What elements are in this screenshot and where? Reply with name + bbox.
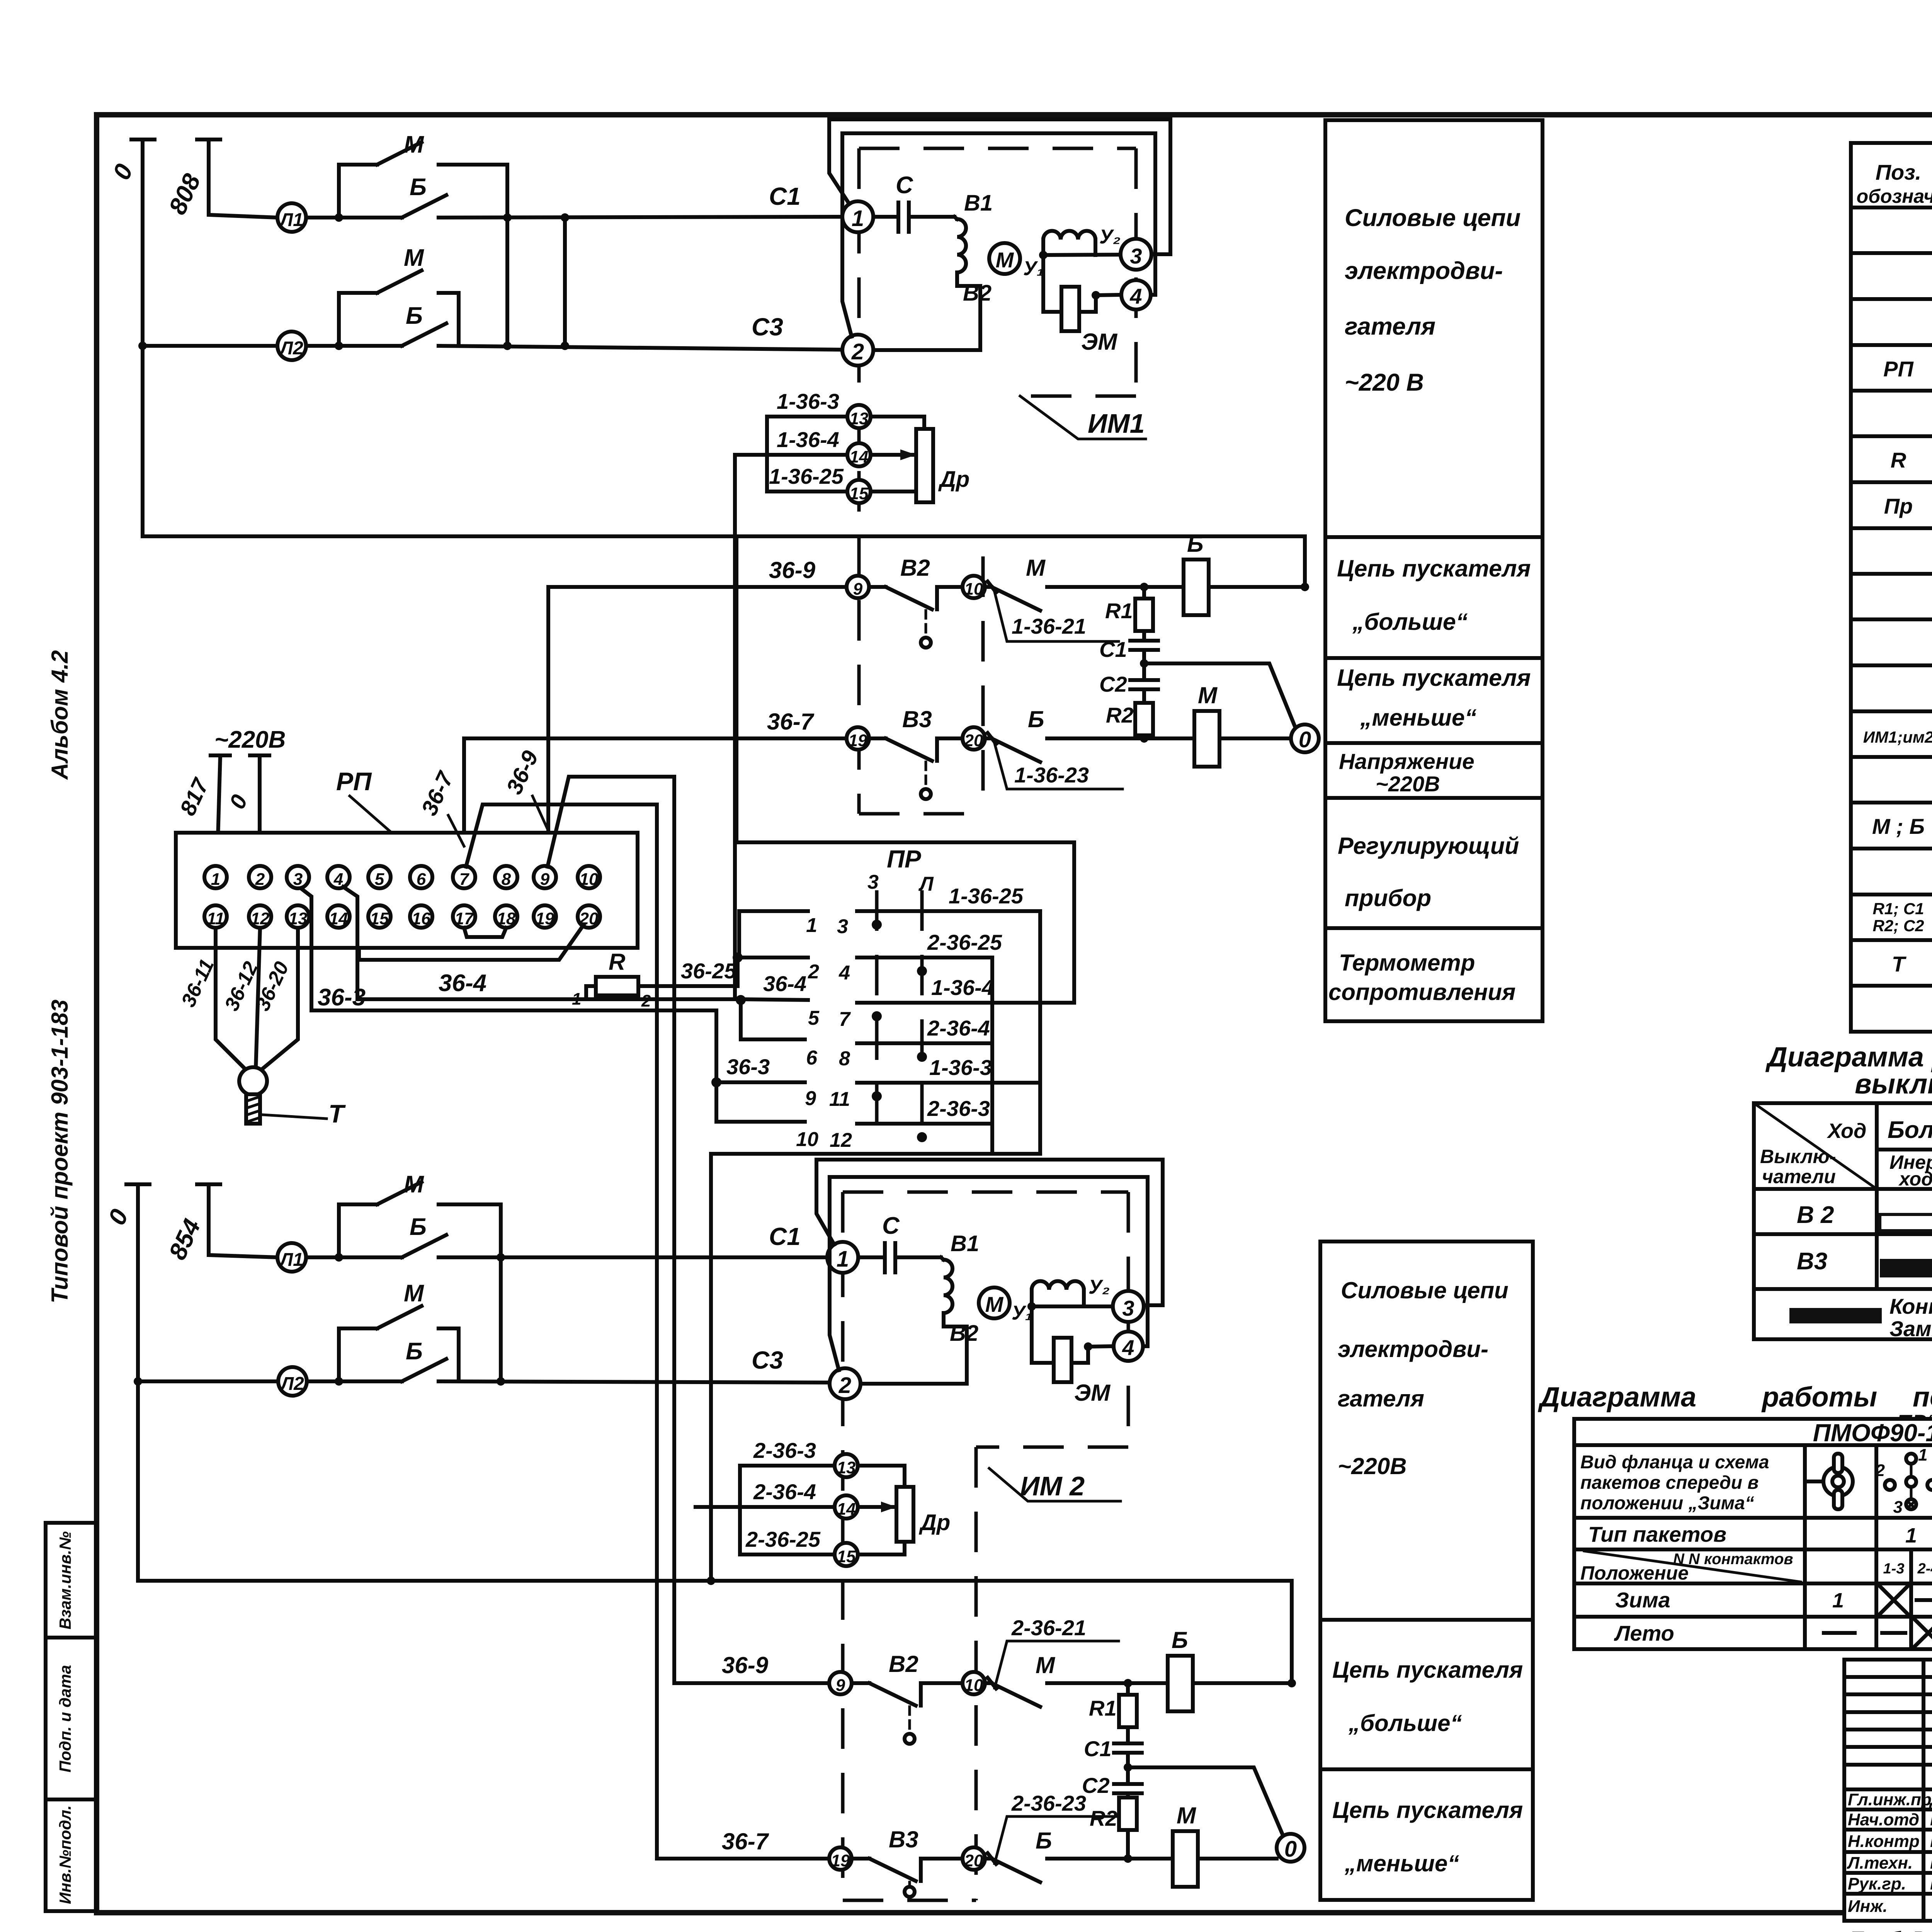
svg-text:Л1: Л1 — [279, 1250, 303, 1270]
svg-text:М: М — [1036, 1652, 1056, 1678]
svg-text:0: 0 — [1284, 1837, 1297, 1862]
svg-text:36-9: 36-9 — [722, 1652, 769, 1678]
svg-text:Кушель: Кушель — [1930, 1831, 1932, 1851]
ladder stub 10 — [716, 1082, 805, 1122]
flange symbol — [1807, 1480, 1822, 1483]
svg-text:М: М — [404, 245, 424, 271]
svg-text:R1: R1 — [1089, 1696, 1117, 1720]
svg-text:9: 9 — [836, 1676, 845, 1695]
mark cell 2 — [1917, 1598, 1932, 1602]
contact B row1 — [402, 195, 446, 218]
svg-text:Б: Б — [1187, 531, 1203, 557]
svg-text:5: 5 — [375, 870, 384, 889]
svg-text:Гл.инж.пр: Гл.инж.пр — [1848, 1790, 1932, 1809]
svg-text:3: 3 — [867, 871, 879, 893]
title block name rows — [1844, 1810, 1932, 1894]
contact B2 — [869, 587, 963, 609]
svg-text:12: 12 — [830, 1129, 852, 1151]
svg-text:Цепь пускателя: Цепь пускателя — [1332, 1657, 1523, 1683]
svg-text:Проб. Руттасе: Проб. Руттасе — [1849, 1928, 1932, 1932]
svg-text:С: С — [882, 1213, 900, 1239]
resistor R1 lower — [1126, 1683, 1130, 1695]
node L1 lower — [277, 1243, 306, 1272]
terminal 4 — [1121, 280, 1151, 310]
svg-text:Инж.: Инж. — [1848, 1897, 1888, 1916]
wire L1 row lower — [306, 1255, 827, 1259]
wire 13 to DR — [871, 417, 924, 502]
wire pin20 tap — [359, 925, 583, 960]
svg-text:Мейман: Мейман — [1930, 1809, 1932, 1829]
contact B row2 lower — [402, 1359, 446, 1381]
dashed box IM1 — [859, 148, 1136, 814]
contact M coil circuit lower — [985, 1678, 1168, 1707]
wire 0 horizontal — [143, 536, 1305, 587]
svg-text:1-3: 1-3 — [1883, 1561, 1905, 1577]
svg-text:прибор: прибор — [1345, 885, 1431, 911]
svg-text:Силовые цепи: Силовые цепи — [1345, 204, 1521, 231]
svg-text:~220В: ~220В — [214, 726, 286, 753]
leader IM1 — [1020, 396, 1146, 439]
node 13 — [847, 405, 871, 428]
svg-text:В3: В3 — [1797, 1248, 1827, 1275]
svg-text:В2: В2 — [950, 1321, 978, 1346]
wire M coil to 0 — [1219, 736, 1291, 740]
svg-text:1-36-3: 1-36-3 — [929, 1055, 992, 1080]
svg-text:12: 12 — [251, 909, 270, 928]
svg-text:14: 14 — [850, 447, 869, 466]
wire 13/15 to DR lower — [858, 1466, 905, 1554]
svg-text:36-9: 36-9 — [769, 557, 816, 583]
svg-text:1: 1 — [1905, 1524, 1917, 1547]
svg-text:36-3: 36-3 — [726, 1054, 770, 1079]
svg-text:9: 9 — [540, 870, 550, 889]
svg-text:„больше“: „больше“ — [1352, 609, 1468, 635]
svg-text:6: 6 — [417, 870, 426, 889]
PR bar 2-36-3 — [857, 1122, 992, 1126]
contact B row2 — [402, 323, 446, 346]
node L2 lower — [278, 1367, 307, 1396]
wire 36-7 — [464, 738, 847, 866]
svg-text:М: М — [996, 248, 1014, 272]
terminal 9 — [847, 576, 869, 598]
contact B2 lower — [852, 1683, 963, 1706]
svg-text:4: 4 — [1129, 284, 1142, 308]
svg-text:2-36-4: 2-36-4 — [927, 1016, 990, 1040]
svg-text:R2: R2 — [1106, 703, 1134, 727]
svg-text:1: 1 — [572, 990, 581, 1009]
label 2-36-23 — [995, 1816, 1119, 1864]
winding U2 lower — [1032, 1281, 1084, 1307]
svg-text:19: 19 — [831, 1851, 850, 1870]
mark cell 1 — [1879, 1585, 1909, 1615]
wire 220V to PR — [736, 536, 1074, 1003]
wire inner loop lower — [830, 1177, 1148, 1370]
svg-text:работы: работы — [1761, 1382, 1877, 1413]
ladder stub 9 — [716, 1080, 805, 1084]
svg-text:Диаграмма: Диаграмма — [1537, 1382, 1696, 1413]
svg-text:С1: С1 — [769, 182, 801, 210]
svg-text:Контакт: Контакт — [1889, 1294, 1932, 1318]
capacitor C — [873, 202, 954, 232]
svg-text:Крауле: Крауле — [1930, 1873, 1932, 1893]
svg-text:Замкнут: Замкнут — [1889, 1316, 1932, 1341]
svg-text:М: М — [1198, 682, 1218, 708]
svg-text:4: 4 — [838, 962, 850, 984]
svg-text:18: 18 — [497, 909, 516, 928]
svg-text:Конькова: Конькова — [1930, 1852, 1932, 1872]
terminal 20 — [963, 727, 985, 750]
svg-text:R2; С2: R2; С2 — [1872, 917, 1924, 935]
wire 36-3 drop — [714, 1010, 718, 1082]
wire 36-7 lower — [657, 1857, 829, 1861]
svg-text:10: 10 — [964, 1676, 983, 1695]
svg-text:36-4: 36-4 — [763, 971, 806, 996]
svg-text:У₂: У₂ — [1088, 1276, 1110, 1298]
junction dots row1 lower — [335, 1253, 343, 1262]
svg-text:С3: С3 — [752, 1346, 783, 1374]
svg-text:М: М — [404, 131, 424, 158]
open terminal below B2 — [925, 611, 927, 637]
svg-text:Б: Б — [406, 303, 423, 329]
svg-text:1-36-4: 1-36-4 — [931, 975, 994, 1000]
svg-text:1: 1 — [1832, 1589, 1844, 1612]
svg-text:С: С — [896, 172, 913, 199]
resistor R1 — [1142, 587, 1146, 599]
svg-text:Зима: Зима — [1615, 1588, 1670, 1612]
left stamp box 1 — [46, 1523, 96, 1638]
node 854 terminal — [197, 1184, 277, 1257]
parts table grid — [1851, 143, 1932, 1032]
svg-text:15: 15 — [850, 484, 869, 503]
svg-text:13: 13 — [837, 1458, 856, 1477]
svg-text:14: 14 — [837, 1500, 856, 1519]
node 15 lower — [835, 1543, 858, 1566]
svg-text:ПР: ПР — [887, 845, 921, 873]
wire node to 0 — [1144, 663, 1295, 727]
svg-text:Б: Б — [410, 174, 427, 201]
svg-text:15: 15 — [837, 1547, 856, 1566]
leader IM2 — [989, 1468, 1121, 1501]
svg-text:электродви-: электродви- — [1338, 1336, 1488, 1362]
svg-text:Н.контр: Н.контр — [1848, 1832, 1920, 1851]
wire vertical tie — [563, 218, 567, 346]
svg-text:2: 2 — [1875, 1461, 1885, 1480]
svg-text:19: 19 — [536, 909, 554, 928]
PR bar 2-36-4 — [857, 1041, 992, 1045]
svg-text:„меньше“: „меньше“ — [1344, 1850, 1459, 1876]
svg-text:Б: Б — [1172, 1627, 1188, 1653]
title block verticals — [1923, 1660, 1932, 1921]
svg-text:У₂: У₂ — [1099, 226, 1121, 248]
diagram 1 table frame — [1754, 1103, 1932, 1339]
svg-text:4: 4 — [1122, 1335, 1134, 1360]
terminal 19 lower — [829, 1847, 852, 1870]
terminal 817 — [211, 755, 230, 866]
svg-text:3: 3 — [1893, 1498, 1903, 1517]
svg-text:Силовые цепи: Силовые цепи — [1341, 1277, 1509, 1303]
ladder stub 5 — [741, 999, 808, 1000]
svg-text:~220В: ~220В — [1376, 772, 1440, 796]
node C1C2 — [1140, 659, 1148, 668]
svg-text:Термометр: Термометр — [1339, 950, 1475, 976]
svg-text:11: 11 — [829, 1088, 850, 1111]
svg-text:R1; С1: R1; С1 — [1872, 900, 1924, 918]
svg-text:Рук.гр.: Рук.гр. — [1848, 1874, 1906, 1893]
left stamp box 3 — [46, 1799, 96, 1911]
svg-text:гателя: гателя — [1338, 1386, 1424, 1412]
svg-text:2: 2 — [808, 961, 819, 983]
svg-text:Напряжение: Напряжение — [1339, 749, 1475, 774]
svg-text:R1: R1 — [1105, 599, 1133, 623]
svg-text:Цепь пускателя: Цепь пускателя — [1332, 1797, 1523, 1823]
svg-text:20: 20 — [964, 731, 983, 750]
svg-text:„меньше“: „меньше“ — [1360, 704, 1477, 731]
svg-text:3: 3 — [837, 915, 848, 938]
motor circle M lower — [979, 1287, 1010, 1318]
PR dashed column right — [920, 890, 924, 1146]
winding B1 lower — [861, 1257, 967, 1384]
svg-text:36-7: 36-7 — [767, 709, 815, 735]
node C1C2 lower — [1124, 1763, 1132, 1772]
svg-text:М: М — [404, 1280, 424, 1307]
svg-text:2: 2 — [851, 339, 864, 364]
ladder stub 2 — [739, 956, 808, 959]
svg-text:20: 20 — [964, 1851, 983, 1870]
svg-text:Б: Б — [1028, 706, 1044, 732]
wire U1 to 3 — [1043, 255, 1121, 255]
svg-text:1: 1 — [837, 1247, 849, 1272]
wire outer loop — [829, 119, 1170, 254]
wire EM branch — [1043, 255, 1121, 312]
wire node to 0 lower — [1128, 1767, 1284, 1837]
svg-text:переключателя режимов: переключателя режимов — [1913, 1382, 1932, 1413]
svg-text:Др: Др — [918, 1510, 950, 1535]
svg-text:РП: РП — [1883, 357, 1914, 381]
svg-text:ИМ1;им2: ИМ1;им2 — [1863, 728, 1932, 746]
contact M bypass row1 — [339, 142, 507, 346]
svg-text:Регулирующий: Регулирующий — [1338, 833, 1519, 859]
node 14 — [847, 443, 871, 466]
svg-text:2: 2 — [641, 992, 651, 1010]
svg-text:Цепь пускателя: Цепь пускателя — [1337, 555, 1531, 582]
svg-text:С2: С2 — [1099, 672, 1127, 696]
svg-text:Взам.инв.№: Взам.инв.№ — [56, 1531, 74, 1629]
svg-text:электродви-: электродви- — [1345, 257, 1503, 284]
wire L1 row — [306, 217, 843, 218]
ladder stub 1 — [739, 911, 808, 957]
svg-text:Пр: Пр — [1884, 494, 1913, 518]
electromagnet EM lower — [1054, 1338, 1071, 1382]
wire pin4 down 36-4 — [343, 887, 741, 999]
svg-text:В1: В1 — [964, 190, 993, 216]
svg-text:36-25: 36-25 — [681, 959, 736, 983]
svg-text:Т: Т — [328, 1099, 346, 1128]
terminal 20 lower — [963, 1847, 985, 1870]
node 14 lower — [835, 1495, 858, 1519]
node before coil lower — [1124, 1679, 1132, 1687]
svg-text:ЭМ: ЭМ — [1081, 329, 1118, 355]
svg-text:2-36-3: 2-36-3 — [753, 1438, 816, 1463]
svg-text:Б: Б — [410, 1214, 427, 1240]
wire EM branch lower — [1032, 1306, 1114, 1363]
svg-text:2-4: 2-4 — [1917, 1561, 1932, 1577]
PR bar 1-36-3 — [857, 1081, 1040, 1085]
resistor R — [586, 986, 596, 999]
svg-text:Ход: Ход — [1827, 1119, 1866, 1143]
svg-text:0: 0 — [1299, 727, 1311, 752]
contact M bypass row1 lower — [339, 1182, 501, 1381]
svg-text:Л1: Л1 — [279, 210, 303, 230]
svg-text:2-36-4: 2-36-4 — [753, 1480, 816, 1504]
open terminal below B3 lower — [908, 1882, 911, 1886]
svg-text:10: 10 — [580, 870, 599, 889]
mode switch table frame — [1574, 1419, 1932, 1649]
left stamp box 2 — [46, 1638, 96, 1799]
wire pins 17-18 jumper — [464, 928, 506, 937]
svg-text:13: 13 — [289, 909, 308, 928]
svg-text:М: М — [985, 1292, 1004, 1316]
label 1-36-23 — [995, 743, 1122, 789]
potentiometer DR lower — [896, 1487, 913, 1542]
svg-text:8: 8 — [502, 870, 511, 889]
svg-text:Подп. и дата: Подп. и дата — [56, 1665, 74, 1772]
svg-text:Диаграмма работы конечных: Диаграмма работы конечных — [1765, 1042, 1932, 1073]
svg-text:ЭМ: ЭМ — [1074, 1380, 1111, 1406]
node L1 upper — [277, 203, 306, 232]
svg-text:РП: РП — [336, 767, 372, 796]
svg-text:Выклю-: Выклю- — [1760, 1146, 1836, 1167]
capacitor C1 — [1130, 631, 1158, 680]
title block small rows top — [1844, 1677, 1932, 1789]
svg-text:„больше“: „больше“ — [1348, 1710, 1462, 1736]
contactor coil M lower — [1173, 1831, 1198, 1887]
ladder stub 6 — [741, 1000, 805, 1039]
svg-text:1: 1 — [806, 914, 817, 937]
svg-text:В3: В3 — [889, 1827, 918, 1852]
label 1-36-21 — [995, 592, 1119, 641]
svg-text:1-36-25: 1-36-25 — [949, 884, 1024, 908]
svg-text:R: R — [609, 949, 625, 975]
svg-text:ПМОФ90-111111/Д42: ПМОФ90-111111/Д42 — [1813, 1419, 1932, 1447]
svg-text:1-36-3: 1-36-3 — [777, 389, 839, 413]
junction dots row2 lower — [134, 1377, 142, 1386]
PR bar 1-36-4 — [857, 1001, 1074, 1005]
svg-text:В2: В2 — [963, 281, 992, 306]
wire pin7 slant to lower feed — [466, 804, 657, 1859]
svg-text:В1: В1 — [951, 1231, 979, 1256]
terminal 3 lower — [1113, 1291, 1144, 1322]
svg-text:3: 3 — [1130, 244, 1142, 268]
svg-text:С1: С1 — [1084, 1736, 1112, 1761]
terminal 10 — [963, 576, 985, 598]
thermometer T — [239, 1067, 267, 1095]
svg-text:выключателей: выключателей — [1855, 1069, 1932, 1100]
svg-text:~220В: ~220В — [1338, 1453, 1406, 1479]
open terminal below B3 — [925, 762, 927, 788]
svg-text:положении „Зима“: положении „Зима“ — [1580, 1493, 1754, 1514]
capacitor C lower — [858, 1243, 941, 1272]
svg-text:8: 8 — [839, 1048, 850, 1070]
svg-text:9: 9 — [853, 580, 863, 599]
wire 36-9 lower — [674, 1681, 829, 1685]
svg-text:Альбом 4.2: Альбом 4.2 — [47, 650, 73, 781]
svg-text:10: 10 — [964, 580, 983, 599]
svg-text:1-36-23: 1-36-23 — [1014, 763, 1089, 787]
node 0 terminal upper — [131, 139, 155, 536]
svg-text:N N контактов: N N контактов — [1673, 1551, 1793, 1568]
svg-text:3: 3 — [293, 870, 303, 889]
node before B coil — [1140, 583, 1148, 591]
svg-text:Др: Др — [938, 467, 969, 492]
capacitor C1 lower — [1114, 1727, 1142, 1784]
contactor coil B — [1184, 560, 1209, 615]
svg-text:1: 1 — [852, 206, 864, 231]
wire outer loop lower — [816, 1160, 1163, 1305]
svg-text:Л2: Л2 — [280, 1374, 304, 1394]
svg-text:1: 1 — [1918, 1446, 1927, 1464]
svg-text:15: 15 — [370, 909, 389, 928]
PR bar 2-36-25 — [857, 957, 992, 1154]
svg-text:9: 9 — [805, 1087, 816, 1110]
svg-text:В 2: В 2 — [1797, 1202, 1834, 1228]
svg-text:С1: С1 — [769, 1223, 801, 1250]
node L2 upper — [277, 332, 306, 360]
svg-text:16: 16 — [412, 909, 431, 928]
contact B coil circuit — [985, 733, 1194, 762]
node 808 terminal — [197, 139, 277, 218]
wire coil to 0 lower — [1198, 1857, 1277, 1861]
contact M bypass row2 — [339, 270, 459, 346]
wire 36-9 — [546, 587, 847, 867]
diagram 1 header diagonal — [1754, 1103, 1877, 1189]
svg-text:ход: ход — [1898, 1168, 1932, 1190]
svg-text:2-36-23: 2-36-23 — [1011, 1791, 1086, 1815]
svg-text:Б: Б — [1036, 1828, 1052, 1854]
PR bottom bus — [711, 1154, 1040, 1581]
svg-text:2: 2 — [838, 1373, 851, 1398]
contact M coil circuit — [985, 582, 1184, 611]
svg-text:2-36-21: 2-36-21 — [1011, 1616, 1086, 1640]
svg-text:Цепь пускателя: Цепь пускателя — [1337, 665, 1531, 691]
svg-text:Тип пакетов: Тип пакетов — [1588, 1522, 1726, 1546]
svg-text:сопротивления: сопротивления — [1328, 979, 1515, 1005]
svg-text:Т: Т — [1892, 952, 1907, 976]
row polozhenie diagonal — [1584, 1551, 1801, 1582]
svg-text:2-36-3: 2-36-3 — [927, 1096, 990, 1121]
RP pins row 2 — [204, 905, 227, 928]
svg-text:Л2: Л2 — [279, 338, 303, 359]
wire coil to bus lower — [1193, 1681, 1292, 1685]
node U1 — [1039, 251, 1048, 259]
PR bar 1-36-25 — [857, 911, 1040, 1154]
svg-text:36-3: 36-3 — [318, 984, 366, 1011]
svg-text:Вид фланца и схема: Вид фланца и схема — [1580, 1452, 1769, 1473]
svg-text:М: М — [1026, 555, 1046, 581]
svg-text:чатели: чатели — [1762, 1166, 1836, 1187]
svg-text:В3: В3 — [902, 706, 932, 732]
svg-text:~220 В: ~220 В — [1345, 369, 1424, 396]
winding B1 — [873, 217, 980, 350]
svg-text:17: 17 — [455, 909, 474, 928]
contactor coil B lower — [1168, 1656, 1193, 1711]
terminal 9 lower — [829, 1672, 852, 1694]
terminal 0 lower — [1277, 1834, 1304, 1862]
svg-text:R: R — [1891, 448, 1906, 472]
potentiometer DR — [916, 429, 933, 502]
electromagnet EM — [1061, 287, 1079, 331]
svg-text:М: М — [404, 1171, 424, 1198]
wire U1 to 3 lower — [1032, 1304, 1113, 1308]
